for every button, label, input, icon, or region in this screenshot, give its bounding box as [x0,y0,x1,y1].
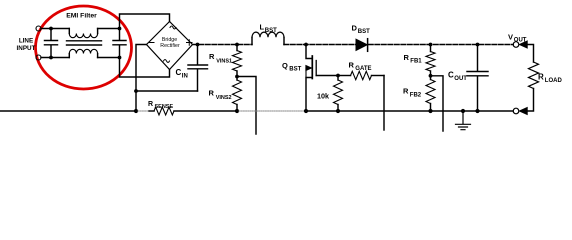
wire: EMI bottom output to bridge AC bottom [120,58,170,78]
capacitor CX1 (EMI filter left X-cap) [45,29,58,58]
resistor R_SENSE [149,110,154,112]
resistor 10k (gate pulldown) [337,76,339,81]
capacitor CX2 (EMI filter right X-cap) [113,29,126,58]
bridge plus mark [187,40,193,46]
resistor R_LOAD [529,62,539,89]
capacitor C_IN [188,45,208,92]
bridge rectifier U1 diamond [147,22,193,70]
svg-text:Q: Q [282,61,288,70]
node: gate junction [336,74,340,78]
svg-text:INPUT: INPUT [17,45,36,52]
terminal: output return [513,108,519,114]
transistor Q_BST (N-MOSFET) drain lead [306,45,312,59]
bridge AC mark top (sine) [170,26,176,29]
wire: DC+ top rail (dash pattern) [193,44,514,46]
common-mode choke bottom winding [68,54,70,58]
svg-text:BST: BST [289,66,301,72]
svg-text:BST: BST [265,28,277,34]
arrow into V_OUT terminal [519,41,527,48]
bridge minus mark [150,42,155,44]
wire: input bottom rail [41,57,120,59]
svg-text:R: R [538,73,544,82]
node: R_FB2 bottom junction [428,109,432,113]
common-mode choke core lines [67,41,102,45]
svg-text:R: R [403,87,409,96]
node: 10k bottom junction [336,109,340,113]
node: EMI output top junction [118,27,122,31]
wire: input top rail [41,28,120,30]
svg-text:SENSE: SENSE [155,104,174,110]
wire: gate drive line down (to controller) [383,76,385,131]
node: R_VINS1 top junction [235,43,239,47]
node: C_IN return junction [134,89,138,93]
terminal: line input top [36,26,41,31]
svg-text:R: R [349,61,355,70]
node: C_IN top junction [196,43,200,47]
svg-text:R: R [209,89,215,98]
svg-text:LOAD: LOAD [545,78,563,84]
node: ground symbol junction [461,109,465,113]
wire: gate node [316,75,338,77]
svg-text:FB2: FB2 [410,93,422,99]
svg-text:BST: BST [358,29,370,35]
svg-text:C: C [448,71,454,80]
wire: C_IN return to bridge negative [136,90,198,92]
wire: V_OUT to load top [527,45,533,63]
inductor L_BST [251,37,253,44]
wire: EMI top output to bridge AC top [120,14,170,29]
svg-text:10k: 10k [317,92,329,101]
common-mode choke (EMI filter) top winding [68,29,70,34]
node: FB divider tap [429,74,433,78]
svg-text:EMI Filter: EMI Filter [66,13,97,20]
bridge AC mark bottom (sine) [164,60,170,63]
svg-text:L: L [260,23,265,32]
ground symbol [456,111,471,130]
node: EMI output bottom junction [118,56,122,60]
resistor R_FB1 [430,45,432,52]
red highlight ellipse around EMI filter [36,6,132,89]
svg-text:OUT: OUT [514,37,527,43]
transistor Q_BST channel bar [311,56,313,79]
node: bridge negative to rail junction [134,109,138,113]
wire: ground rail right segment [306,110,513,112]
svg-text:FB1: FB1 [410,59,422,65]
terminal: line input bottom [36,55,41,60]
transistor Q_BST body arrow [305,68,307,78]
svg-text:GATE: GATE [355,66,371,72]
svg-text:IN: IN [182,74,188,80]
svg-text:VINS2: VINS2 [216,95,232,101]
resistor R_FB2 [430,76,432,80]
svg-text:C: C [176,68,182,77]
node: Q_BST drain junction [304,43,308,47]
transistor Q_BST gate bar [315,61,317,76]
node: R_FB1 top junction [429,43,433,47]
node: C_OUT bottom junction [475,109,479,113]
capacitor C_OUT [467,45,488,112]
node: R_VINS2 bottom junction [235,109,239,113]
svg-text:VINS1: VINS1 [216,58,232,64]
arrow into output return terminal [519,107,527,114]
resistor R_GATE [338,75,351,77]
svg-text:R: R [148,101,153,108]
svg-text:R: R [209,52,215,61]
node: Q_BST source junction [304,109,308,113]
dotted sense link: ISENSE [138,110,149,112]
wire: ground rail left segment [0,110,137,112]
node: EMI left bottom junction [49,56,53,60]
svg-text:R: R [404,53,410,62]
wire: FB tap to controller (down) [431,76,444,131]
wire: bridge negative output down to ground rail [136,45,147,112]
transistor Q_BST source lead [306,78,312,112]
dotted sense link: rail between VINS2 and source [239,110,304,112]
terminal: V_OUT [513,42,519,48]
svg-text:Rectifier: Rectifier [160,43,180,49]
svg-text:OUT: OUT [454,76,467,82]
node: C_OUT top junction [476,43,480,47]
diode D_BST [356,39,367,50]
node: EMI left top junction [49,27,53,31]
svg-text:V: V [508,33,513,42]
resistor R_VINS1 [236,45,238,51]
svg-text:LINE: LINE [19,38,33,45]
svg-text:D: D [352,24,358,33]
node: VINS divider tap [235,75,239,79]
resistor R_VINS2 [236,77,238,81]
wire: VINS tap to controller (down) [237,77,256,135]
